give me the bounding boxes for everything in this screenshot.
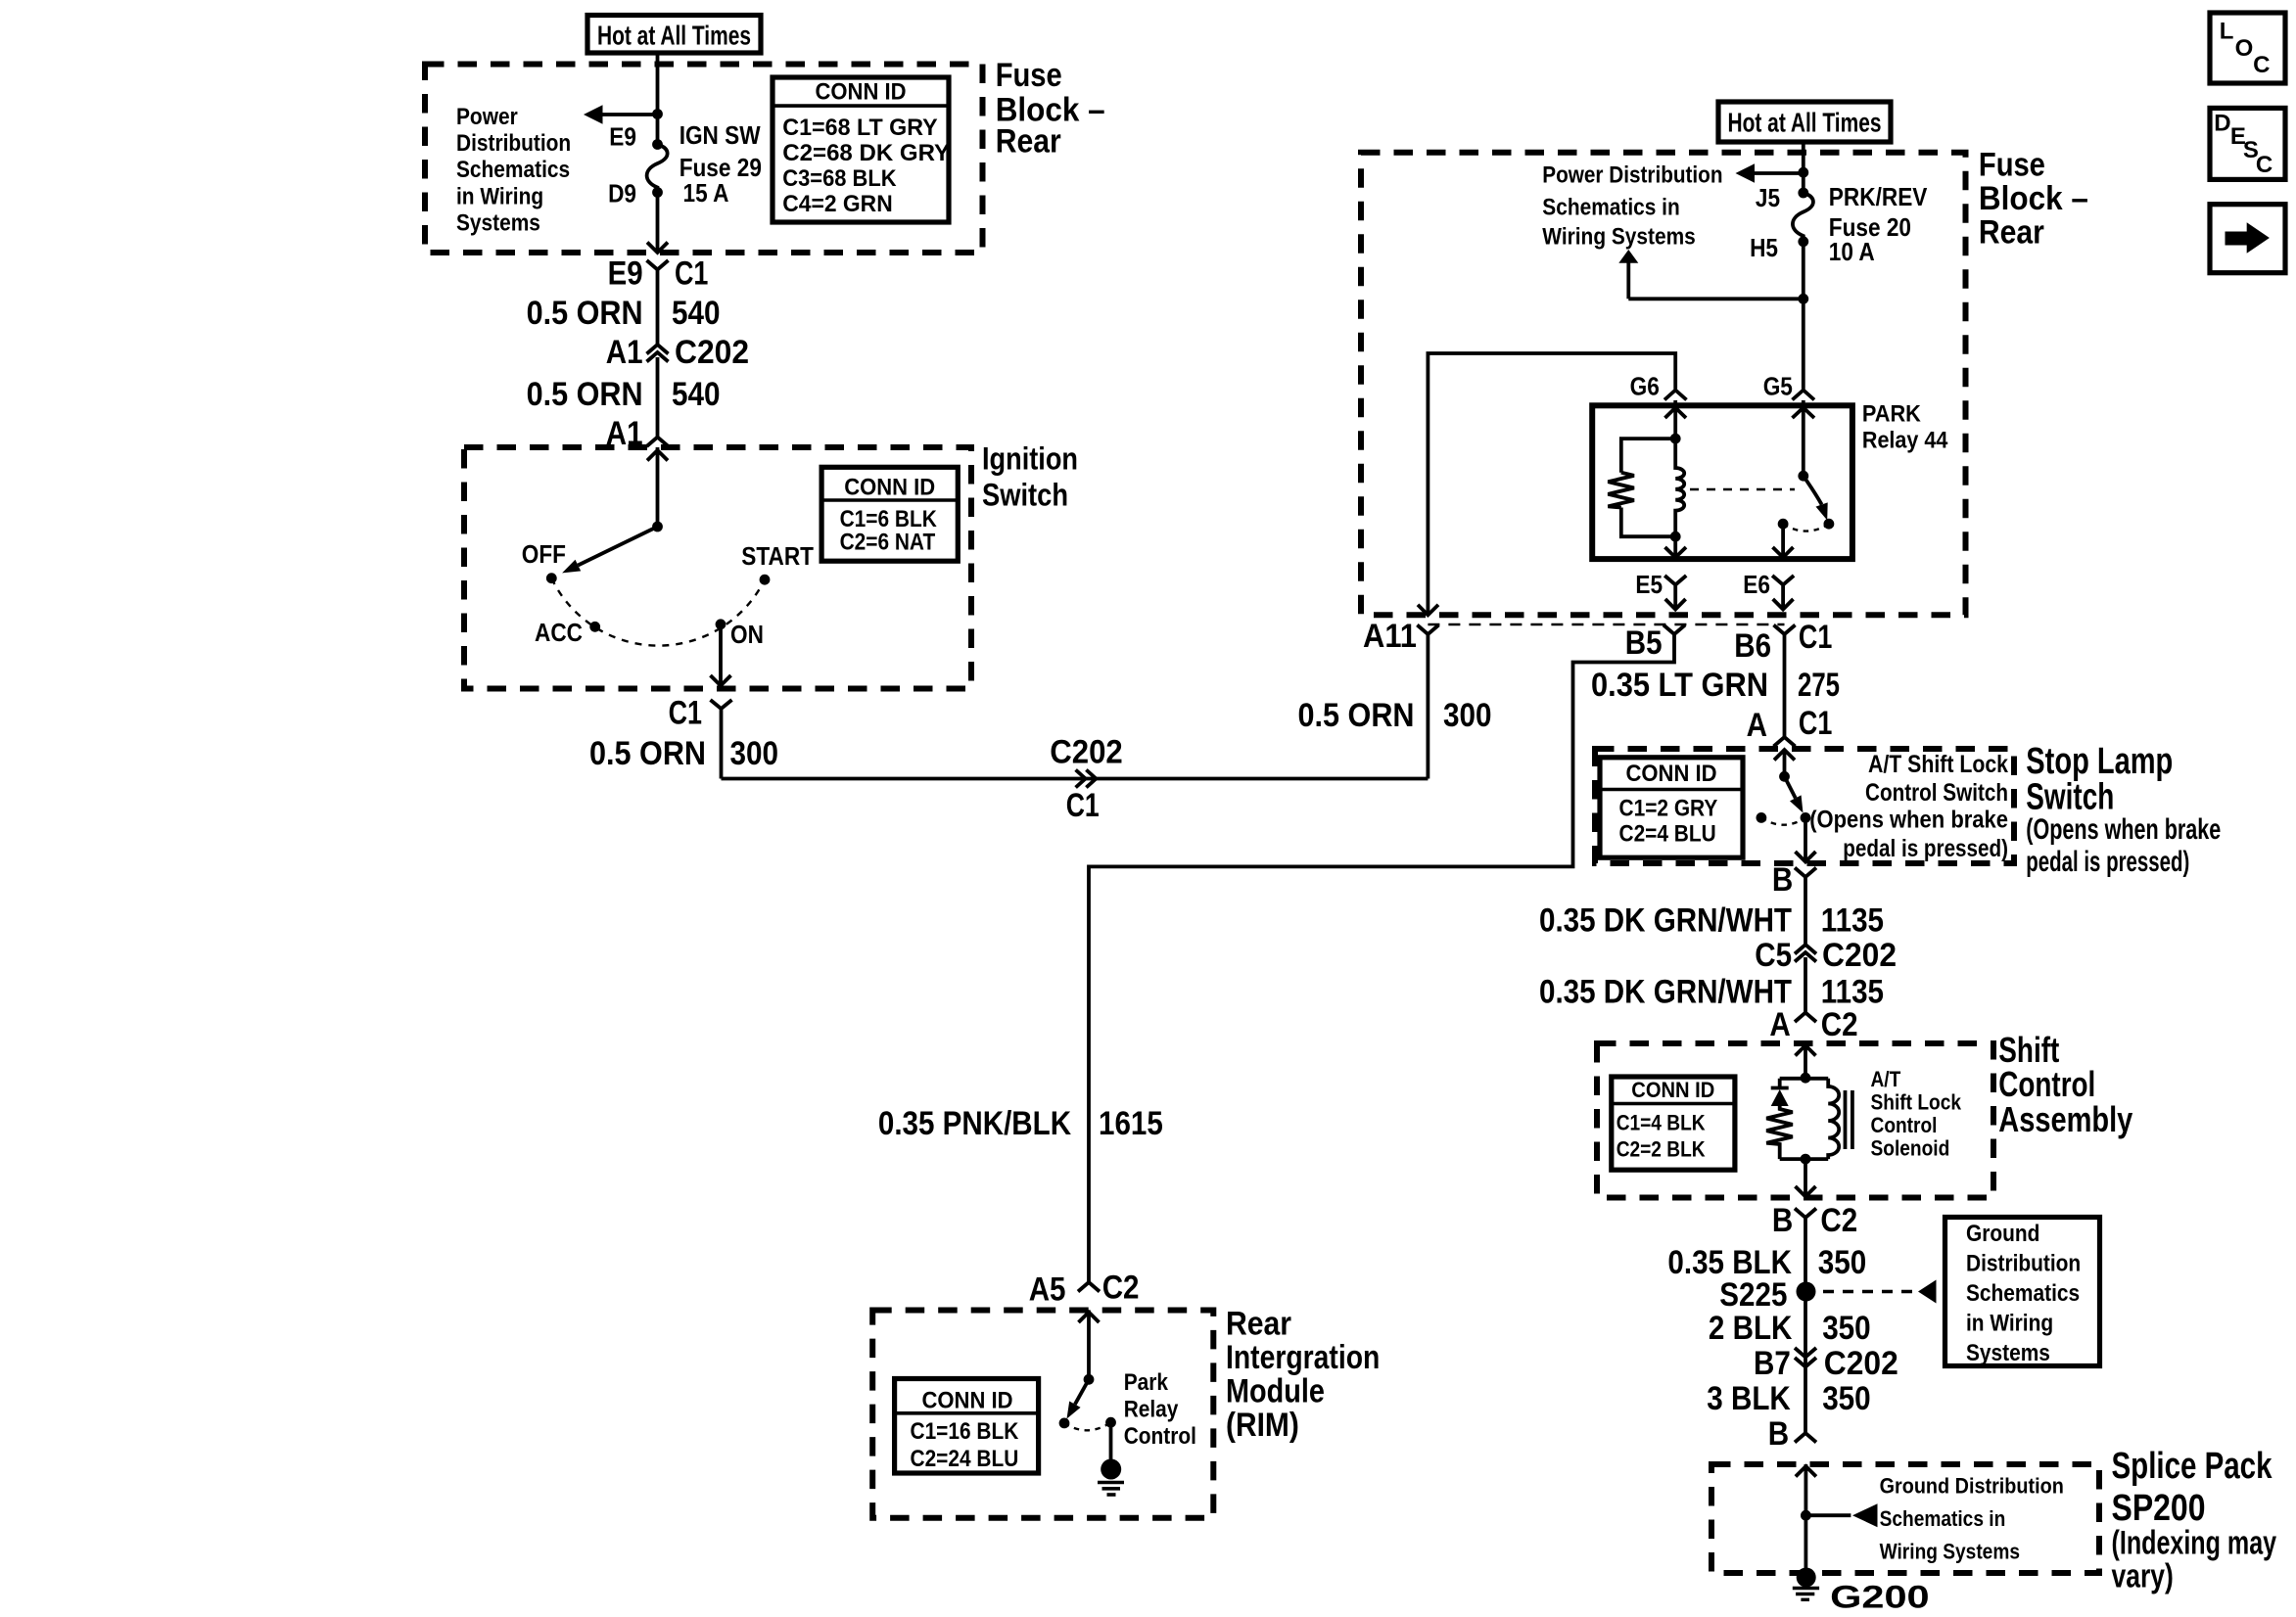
- svg-text:300: 300: [730, 735, 779, 772]
- svg-text:350: 350: [1818, 1244, 1867, 1281]
- node: relay contact (left, to E6): [1778, 519, 1789, 530]
- legend box LOC: [2210, 13, 2285, 83]
- svg-text:C2=6 NAT: C2=6 NAT: [840, 529, 936, 555]
- power label box "Hot at All Times" (right): [1718, 102, 1891, 142]
- node: fuse terminal E9: [652, 139, 663, 150]
- label "Splice Pack SP200 (Indexing may vary)": [2112, 1446, 2277, 1595]
- svg-text:B: B: [1772, 861, 1793, 899]
- svg-text:in Wiring: in Wiring: [1966, 1311, 2053, 1337]
- node: splice pack junction: [1801, 1510, 1811, 1521]
- component box: Ignition Switch, dashed: [464, 447, 971, 689]
- connector A/C2 (male terminal at shift control assembly): [1795, 1013, 1816, 1023]
- svg-text:0.35 LT GRN: 0.35 LT GRN: [1591, 667, 1768, 704]
- node: relay coil bottom junction: [1670, 531, 1681, 542]
- svg-text:G200: G200: [1830, 1580, 1930, 1615]
- svg-text:Hot at All Times: Hot at All Times: [1728, 108, 1882, 138]
- svg-text:C2=24 BLU: C2=24 BLU: [911, 1446, 1019, 1472]
- svg-text:350: 350: [1822, 1310, 1871, 1347]
- wire: Hot at All Times (right) down to junction: [1802, 142, 1805, 172]
- wire: entry into shift control assembly with arrow: [1796, 1043, 1816, 1078]
- node: START contact: [760, 575, 771, 585]
- svg-text:Stop Lamp: Stop Lamp: [2026, 741, 2173, 782]
- connector C1 (female Y below ignition switch): [711, 700, 732, 779]
- svg-text:C3=68 BLK: C3=68 BLK: [782, 165, 897, 192]
- connector G5 (male terminal into relay): [1793, 391, 1815, 406]
- svg-text:Ground: Ground: [1966, 1221, 2039, 1247]
- connector C202/C1 (in-line, double chevron right): [1076, 770, 1097, 788]
- CONN ID table (Stop Lamp Switch): [1600, 758, 1743, 857]
- svg-text:Power Distribution: Power Distribution: [1542, 162, 1722, 189]
- label "PARK Relay 44": [1862, 400, 1948, 453]
- svg-text:Park: Park: [1124, 1369, 1169, 1396]
- connector B/C2 (female Y below shift control): [1795, 1209, 1816, 1434]
- wire: RIM contact to internal ground: [1109, 1422, 1113, 1461]
- svg-text:ON: ON: [730, 620, 764, 649]
- connector E5 (female Y below relay) with exit arrow: [1664, 576, 1686, 610]
- svg-text:A/T: A/T: [1871, 1067, 1901, 1091]
- svg-text:300: 300: [1443, 697, 1492, 734]
- svg-text:Block –: Block –: [1979, 180, 2088, 217]
- svg-text:C5: C5: [1755, 937, 1792, 974]
- svg-text:START: START: [741, 541, 814, 571]
- svg-text:Control: Control: [1124, 1423, 1196, 1450]
- svg-text:Switch: Switch: [2026, 777, 2114, 818]
- RIM contact travel arc (dashed): [1064, 1422, 1111, 1430]
- svg-text:C4=2 GRN: C4=2 GRN: [782, 191, 892, 217]
- svg-text:Intergration: Intergration: [1226, 1339, 1380, 1376]
- svg-text:Schematics in: Schematics in: [1542, 195, 1679, 221]
- svg-text:CONN ID: CONN ID: [1626, 761, 1717, 787]
- svg-text:in Wiring: in Wiring: [456, 183, 543, 209]
- svg-text:Relay: Relay: [1124, 1397, 1179, 1423]
- label "Shift Control Assembly": [1998, 1030, 2132, 1139]
- reference box: Ground Distribution Schematics in Wiring Systems: [1945, 1218, 2100, 1367]
- connector B6 (female Y): [1774, 625, 1796, 635]
- node: RIM contact (right, grounded): [1105, 1417, 1116, 1428]
- component box: Stop Lamp Switch, dashed: [1595, 749, 2014, 863]
- switch travel arc (dashed) OFF-ACC-ON-START: [551, 578, 765, 646]
- label "Ignition Switch": [982, 441, 1078, 513]
- svg-text:350: 350: [1822, 1380, 1871, 1417]
- svg-text:G5: G5: [1763, 372, 1793, 401]
- node: fuse terminal J5: [1798, 188, 1808, 199]
- connector B (male terminal at splice pack): [1795, 1433, 1816, 1443]
- svg-text:A1: A1: [606, 334, 643, 371]
- connector E6 (female Y below relay) with exit arrow: [1772, 576, 1794, 610]
- svg-text:540: 540: [672, 376, 721, 413]
- svg-text:B6: B6: [1734, 627, 1771, 665]
- component box: Rear Intergration Module (RIM), dashed: [872, 1311, 1213, 1518]
- svg-text:PARK: PARK: [1862, 400, 1922, 427]
- relay PARK Relay 44 (solid box): [1592, 405, 1852, 559]
- svg-text:PRK/REV: PRK/REV: [1829, 182, 1928, 211]
- svg-text:C1=4 BLK: C1=4 BLK: [1617, 1110, 1706, 1134]
- svg-text:10 A: 10 A: [1829, 237, 1875, 266]
- exit arrow at A11: [1418, 605, 1438, 616]
- wire: solenoid to exit arrow: [1796, 1159, 1816, 1196]
- svg-text:Hot at All Times: Hot at All Times: [597, 21, 751, 51]
- svg-text:C2=2 BLK: C2=2 BLK: [1617, 1137, 1706, 1162]
- solenoid core bars: [1846, 1090, 1852, 1149]
- label: A/T Shift Lock Control Solenoid: [1871, 1067, 1962, 1161]
- svg-text:CONN ID: CONN ID: [844, 475, 935, 501]
- svg-text:C2: C2: [1102, 1270, 1140, 1307]
- wire: B6 down to stop lamp switch: [1783, 634, 1787, 736]
- wire: riser up to A11: [1427, 642, 1430, 779]
- svg-text:OFF: OFF: [522, 539, 566, 569]
- component box: Shift Control Assembly, dashed: [1597, 1043, 1993, 1198]
- node: park relay control switch pivot: [1084, 1374, 1095, 1385]
- svg-text:Rear: Rear: [996, 123, 1061, 161]
- svg-text:Solenoid: Solenoid: [1871, 1135, 1950, 1160]
- wire: horizontal run from ignition switch to fuse block A11 riser: [722, 777, 1429, 781]
- node: junction at fuse E9 feed: [652, 109, 663, 119]
- node: RIM contact (left): [1059, 1418, 1070, 1429]
- svg-text:Schematics: Schematics: [456, 157, 570, 183]
- svg-text:Splice Pack: Splice Pack: [2112, 1446, 2273, 1487]
- connector G6 (male terminal into relay): [1664, 391, 1687, 406]
- svg-text:C202: C202: [675, 334, 749, 371]
- svg-text:C1=16 BLK: C1=16 BLK: [911, 1418, 1019, 1445]
- svg-text:vary): vary): [2112, 1558, 2174, 1595]
- wire: entry into stop lamp switch with arrow: [1774, 749, 1795, 776]
- wire: G6 entry into relay coil with arrow: [1665, 405, 1687, 439]
- svg-text:E5: E5: [1635, 570, 1663, 599]
- stop lamp contact travel arc (dashed): [1761, 817, 1805, 824]
- wire: contact down, exit arrow: [1796, 817, 1816, 861]
- svg-text:C2: C2: [1821, 1006, 1858, 1043]
- svg-text:Schematics in: Schematics in: [1880, 1506, 2006, 1531]
- fuse value label: IGN SW Fuse 29 15 A: [679, 120, 762, 208]
- svg-text:Rear: Rear: [1979, 214, 2044, 252]
- svg-text:E6: E6: [1743, 570, 1770, 599]
- svg-text:A: A: [1769, 1006, 1790, 1043]
- svg-text:ACC: ACC: [535, 618, 583, 647]
- svg-text:Control Switch: Control Switch: [1865, 779, 2008, 807]
- svg-text:Ground Distribution: Ground Distribution: [1880, 1473, 2064, 1498]
- wire: ON contact down, exit arrow: [711, 624, 731, 686]
- svg-text:H5: H5: [1750, 233, 1778, 262]
- connector A/C1 (male terminal at stop lamp switch): [1774, 737, 1796, 747]
- node: solenoid top junction: [1801, 1073, 1811, 1084]
- svg-text:0.35 DK GRN/WHT: 0.35 DK GRN/WHT: [1539, 902, 1792, 940]
- node: relay switch pivot: [1798, 471, 1808, 482]
- label: Power Distribution Schematics in Wiring Systems (right): [1542, 162, 1722, 251]
- svg-text:SP200: SP200: [2112, 1488, 2206, 1529]
- svg-text:3 BLK: 3 BLK: [1707, 1380, 1791, 1417]
- svg-text:C1=68 LT GRY: C1=68 LT GRY: [782, 115, 937, 141]
- svg-text:1615: 1615: [1099, 1105, 1163, 1142]
- stop lamp switch arm with arrowhead: [1785, 776, 1796, 798]
- wire: branch left to reference arrow: [1753, 171, 1804, 175]
- resistor (relay parallel resistor): [1608, 439, 1675, 536]
- connector B7/C202 (double chevron down): [1795, 1348, 1816, 1367]
- label "Rear Intergration Module (RIM)": [1226, 1306, 1380, 1445]
- svg-text:Wiring Systems: Wiring Systems: [1542, 224, 1696, 251]
- node: OFF contact: [546, 573, 557, 583]
- svg-text:E9: E9: [608, 254, 643, 292]
- svg-text:0.5 ORN: 0.5 ORN: [527, 295, 643, 332]
- wire: D9 down to fuse block edge, exit arrow: [656, 193, 660, 254]
- wire: branch left and up to reference arrow: [1628, 262, 1804, 299]
- node: relay coil top junction: [1670, 434, 1681, 444]
- svg-text:L: L: [2220, 19, 2234, 45]
- svg-text:CONN ID: CONN ID: [922, 1388, 1013, 1414]
- arrow to Power Distribution Schematics (filled, points left): [584, 105, 603, 124]
- relay switch arm with arrowhead: [1804, 476, 1822, 504]
- svg-text:O: O: [2235, 35, 2254, 62]
- RIM switch arm with arrowhead: [1075, 1379, 1089, 1404]
- node: splice S225: [1797, 1282, 1816, 1302]
- CONN ID table (Ignition Switch): [821, 467, 958, 561]
- arrow (filled, points left) at Ground Distribution reference: [1918, 1280, 1937, 1304]
- diode (clamp) in solenoid: [1771, 1079, 1789, 1106]
- ground (RIM internal): [1098, 1459, 1124, 1496]
- svg-text:Distribution: Distribution: [456, 130, 571, 157]
- svg-text:CONN ID: CONN ID: [1631, 1078, 1714, 1102]
- connector A11 (female Y into fuse block): [1417, 625, 1438, 643]
- relay coil winding: [1675, 439, 1684, 536]
- component box: Fuse Block - Rear (left), dashed: [425, 65, 983, 254]
- svg-text:J5: J5: [1756, 183, 1780, 212]
- wire: Hot at All Times to junction: [656, 53, 660, 115]
- svg-text:1135: 1135: [1821, 902, 1884, 940]
- label "Fuse Block - Rear" (left): [996, 57, 1105, 161]
- component box: Splice Pack SP200, dashed: [1711, 1464, 2099, 1573]
- CONN ID table (Fuse Block - Rear left): [773, 77, 950, 222]
- svg-text:C: C: [2253, 52, 2270, 78]
- svg-text:15 A: 15 A: [683, 178, 729, 208]
- arrow (filled, points left) at splice pack reference: [1852, 1503, 1878, 1527]
- legend box DESC: [2210, 108, 2285, 179]
- resistor in solenoid branch: [1766, 1106, 1793, 1159]
- connector A1/C202 (double chevron): [647, 345, 669, 438]
- node: junction to Power Distribution reference: [1798, 167, 1808, 178]
- svg-text:1135: 1135: [1821, 974, 1884, 1011]
- svg-text:B: B: [1768, 1415, 1789, 1453]
- svg-text:A: A: [1747, 707, 1767, 744]
- connector A5/C2 (male terminal at RIM): [1078, 1282, 1100, 1292]
- connector C1 boundary line (thin dashed): [1428, 624, 1784, 626]
- svg-text:(Opens when brake: (Opens when brake: [2026, 813, 2221, 846]
- reference line to Ground Distribution text: [1805, 1513, 1851, 1517]
- wire: junction to fuse terminal E9: [656, 115, 660, 145]
- connector A1 (male terminal at Ignition Switch): [647, 438, 669, 447]
- node: ACC contact: [589, 622, 600, 632]
- svg-text:C2=68 DK GRY: C2=68 DK GRY: [782, 140, 950, 166]
- svg-text:Systems: Systems: [1966, 1340, 2050, 1366]
- svg-text:G6: G6: [1630, 372, 1660, 401]
- svg-text:0.35 PNK/BLK: 0.35 PNK/BLK: [878, 1105, 1072, 1142]
- solenoid network top rail: [1780, 1077, 1829, 1081]
- arrow to Power Distribution Schematics (filled, points left): [1736, 163, 1756, 183]
- svg-text:Relay 44: Relay 44: [1862, 428, 1948, 454]
- svg-text:A/T Shift Lock: A/T Shift Lock: [1868, 751, 2008, 778]
- node: solenoid bottom junction: [1801, 1154, 1811, 1165]
- fuse: IGN SW Fuse 29 15 A (S-curve element): [647, 145, 668, 193]
- power label box "Hot at All Times" (left): [587, 16, 761, 54]
- svg-text:C202: C202: [1822, 937, 1897, 974]
- solenoid network bottom rail: [1780, 1157, 1829, 1161]
- fuse: PRK/REV Fuse 20 10 A (S-curve element): [1793, 193, 1813, 242]
- svg-text:C2=4 BLU: C2=4 BLU: [1619, 820, 1716, 847]
- connector B (female Y below stop lamp switch): [1795, 868, 1816, 946]
- node: fuse terminal D9: [652, 187, 663, 198]
- label: Power Distribution Schematics in Wiring Systems (left): [456, 104, 571, 237]
- svg-text:Fuse: Fuse: [1979, 147, 2045, 184]
- svg-text:Control: Control: [1871, 1113, 1938, 1137]
- svg-text:A11: A11: [1363, 618, 1417, 655]
- svg-text:(Opens when brake: (Opens when brake: [1809, 807, 2008, 834]
- svg-text:Rear: Rear: [1226, 1306, 1291, 1343]
- label: A/T Shift Lock Control Switch (internal): [1809, 751, 2008, 862]
- svg-text:IGN SW: IGN SW: [679, 120, 761, 150]
- svg-text:S225: S225: [1719, 1276, 1787, 1314]
- node: stop lamp contact (left): [1757, 812, 1767, 823]
- svg-text:B5: B5: [1625, 624, 1663, 662]
- svg-text:B7: B7: [1754, 1345, 1791, 1382]
- component box: Fuse Block - Rear (right), dashed: [1361, 153, 1966, 616]
- wire: relay contact to E6 exit with arrow: [1773, 524, 1794, 557]
- svg-text:Module: Module: [1226, 1373, 1325, 1410]
- wire: junction down to relay pin G5: [1802, 299, 1805, 389]
- svg-text:Power: Power: [456, 104, 518, 130]
- wire: branch to Power Distribution reference arrow: [601, 113, 658, 116]
- svg-text:2 BLK: 2 BLK: [1709, 1310, 1793, 1347]
- wire: G5 entry into relay switch with arrow: [1793, 405, 1815, 476]
- actuation line (dashed) coil to switch: [1690, 488, 1795, 491]
- wire: entry into ignition switch with arrow: [647, 447, 668, 527]
- svg-text:D: D: [2214, 110, 2230, 136]
- svg-text:B: B: [1772, 1202, 1793, 1239]
- contact labels OFF ACC ON START: [522, 539, 814, 649]
- svg-text:Schematics: Schematics: [1966, 1280, 2080, 1307]
- connector B5 (female Y): [1663, 625, 1685, 635]
- svg-text:0.5 ORN: 0.5 ORN: [527, 376, 643, 413]
- svg-text:Shift Lock: Shift Lock: [1871, 1089, 1962, 1114]
- svg-text:pedal is pressed): pedal is pressed): [1843, 835, 2008, 862]
- svg-text:Assembly: Assembly: [1998, 1099, 2132, 1139]
- fuse value label: PRK/REV Fuse 20 10 A: [1829, 182, 1928, 266]
- wire: A11 riser inside fuse block up and over to G6: [1428, 353, 1675, 615]
- relay contact travel arc (dashed): [1783, 524, 1829, 531]
- wire: H5 down to lower junction: [1802, 242, 1805, 299]
- connector C5/C202 (double chevron): [1795, 945, 1816, 1012]
- node: stop lamp switch pivot: [1779, 771, 1790, 782]
- svg-text:Systems: Systems: [456, 210, 540, 237]
- label: Ground Distribution Schematics in Wiring Systems (splice pack): [1880, 1473, 2064, 1563]
- wire: coil to E5 exit with arrow: [1665, 536, 1687, 557]
- legend box forward arrow: [2210, 205, 2285, 273]
- svg-text:D9: D9: [608, 179, 636, 208]
- svg-text:Wiring Systems: Wiring Systems: [1880, 1540, 2020, 1564]
- node: junction to upward reference arrow: [1798, 294, 1808, 304]
- svg-text:Switch: Switch: [982, 477, 1068, 512]
- svg-text:C: C: [2256, 152, 2273, 178]
- svg-text:C1: C1: [669, 695, 702, 732]
- svg-text:C1: C1: [1799, 619, 1832, 656]
- label "Stop Lamp Switch (Opens when brake pedal is pressed)": [2026, 741, 2221, 878]
- wire: B5 down-left-down-left to RIM A5: [1089, 634, 1674, 1282]
- svg-text:pedal is pressed): pedal is pressed): [2026, 846, 2189, 878]
- node: fuse terminal H5: [1798, 236, 1808, 247]
- svg-text:Distribution: Distribution: [1966, 1251, 2081, 1277]
- svg-text:C2: C2: [1820, 1202, 1857, 1239]
- svg-text:CONN ID: CONN ID: [816, 78, 907, 105]
- node: stop lamp contact (right, wired): [1801, 812, 1811, 823]
- svg-text:0.5 ORN: 0.5 ORN: [589, 735, 706, 772]
- label "Park Relay Control": [1124, 1369, 1196, 1450]
- reference line (dashed) S225 to Ground Distribution box: [1823, 1290, 1917, 1293]
- node: relay contact (right): [1824, 519, 1835, 530]
- solenoid coil winding: [1828, 1079, 1839, 1159]
- ground G200: [1793, 1568, 1930, 1615]
- arrow up to Power Distribution text (filled, points up): [1618, 250, 1638, 263]
- wire: entry into RIM with arrow: [1079, 1311, 1100, 1380]
- svg-text:Ignition: Ignition: [982, 441, 1078, 477]
- connector E9/C1 (female Y terminal): [647, 260, 669, 344]
- switch arm: pivot to OFF with arrowhead: [578, 527, 657, 566]
- svg-text:0.35 DK GRN/WHT: 0.35 DK GRN/WHT: [1539, 974, 1792, 1011]
- svg-text:E9: E9: [609, 122, 636, 152]
- svg-text:C1=2 GRY: C1=2 GRY: [1619, 796, 1718, 822]
- svg-text:Fuse: Fuse: [996, 57, 1062, 94]
- svg-text:(Indexing may: (Indexing may: [2112, 1525, 2277, 1562]
- svg-text:C202: C202: [1824, 1345, 1898, 1382]
- svg-text:C1: C1: [1799, 705, 1832, 742]
- svg-text:(RIM): (RIM): [1226, 1407, 1299, 1444]
- wire: entry into splice pack with arrow: [1796, 1464, 1816, 1578]
- svg-text:A5: A5: [1029, 1271, 1066, 1309]
- wire: junction to fuse terminal J5: [1802, 172, 1805, 193]
- CONN ID table (Shift Control Assembly): [1612, 1077, 1735, 1170]
- svg-text:C202: C202: [1050, 734, 1123, 771]
- svg-text:0.5 ORN: 0.5 ORN: [1298, 697, 1415, 734]
- svg-text:540: 540: [672, 295, 721, 332]
- svg-text:Control: Control: [1998, 1064, 2095, 1104]
- label "Fuse Block - Rear" (right): [1979, 147, 2088, 252]
- svg-text:C1: C1: [675, 254, 708, 292]
- node: ignition switch pivot: [652, 522, 663, 532]
- CONN ID table (RIM): [895, 1379, 1039, 1474]
- svg-text:C1: C1: [1066, 787, 1100, 824]
- svg-text:275: 275: [1798, 667, 1840, 704]
- node: ON contact: [716, 619, 726, 629]
